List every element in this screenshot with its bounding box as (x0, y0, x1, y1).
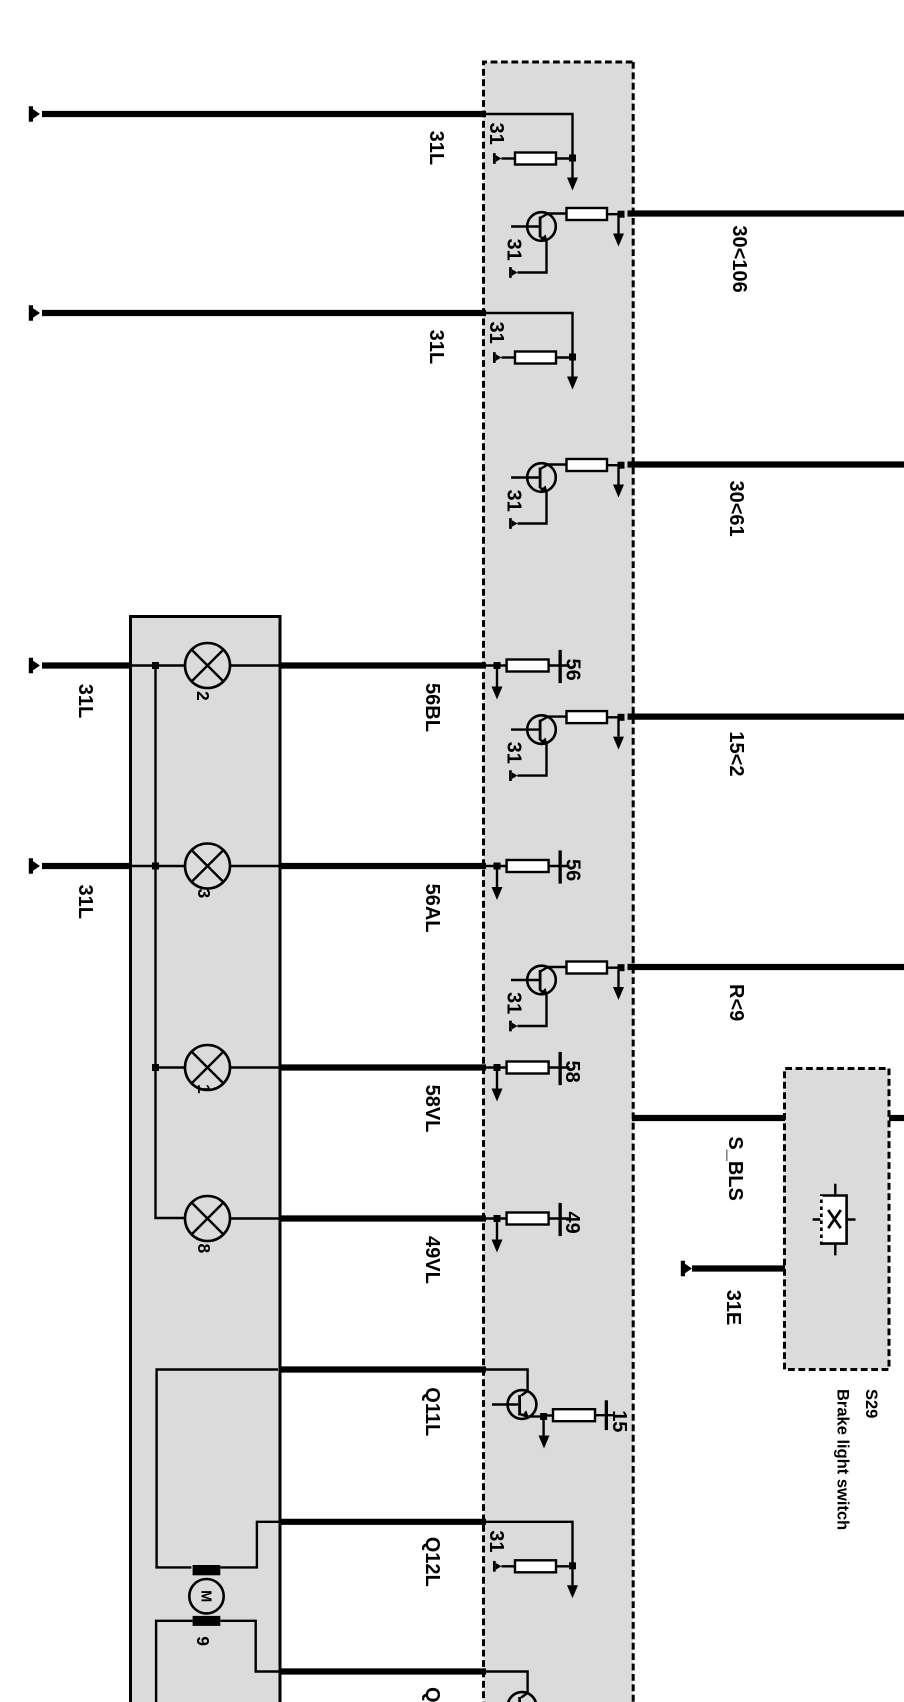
terminal 49 block row11 (486, 1203, 570, 1253)
lamp 3 (185, 844, 230, 889)
svg-text:56: 56 (562, 859, 584, 881)
svg-text:56BL: 56BL (421, 683, 443, 732)
svg-text:Q12L: Q12L (421, 1537, 443, 1587)
lamp 8 feed wire (230, 1217, 280, 1219)
terminal 58 block row9 (486, 1052, 570, 1102)
svg-text:58: 58 (561, 1061, 583, 1083)
transistor output block row6 (503, 711, 625, 781)
washer motor feed wire Q11L (157, 1370, 278, 1568)
connector arrow 31E (681, 1261, 692, 1277)
wire 30&lt;106 row2 (628, 210, 904, 216)
connector arrow row5 (29, 658, 40, 674)
transistor Q block row14 (483, 1672, 630, 1702)
wire 56BL row5 upper segment (279, 662, 487, 668)
wire 31L row1 (42, 111, 486, 117)
transistor output block row2 (503, 208, 625, 278)
wire Q11L row12 (279, 1366, 487, 1372)
wire Q12L row13 (279, 1519, 487, 1525)
connector arrow row7 (29, 858, 40, 874)
wire 49VL row11 (279, 1215, 487, 1221)
wire 31L row5 lower segment (42, 662, 132, 668)
motor bus tail wire (156, 1621, 193, 1702)
terminal 31 block row1 (485, 114, 578, 191)
terminal 31 block row13 (485, 1522, 578, 1599)
control module box (dashed gray band) (484, 62, 634, 1702)
svg-text:2: 2 (193, 691, 213, 701)
wire 56AL row7 upper segment (279, 863, 487, 869)
motor brush 2 (193, 1616, 221, 1626)
washer motor M (189, 1579, 223, 1613)
wire 30&lt;61 row4 (628, 461, 904, 467)
brake light switch S29 box (785, 1069, 890, 1370)
svg-text:30<106: 30<106 (728, 225, 750, 292)
terminal 31 block row3 (485, 313, 578, 390)
lamp cluster box (131, 617, 281, 1702)
wire 31E (692, 1265, 785, 1271)
svg-text:49: 49 (561, 1212, 583, 1234)
svg-text:9: 9 (193, 1636, 213, 1646)
lamp 2 (185, 643, 230, 688)
wire S_BLS row10 lower (632, 1115, 785, 1121)
svg-text:S29: S29 (862, 1389, 880, 1418)
svg-text:1: 1 (194, 1084, 214, 1094)
connector arrow row3 (29, 305, 40, 321)
svg-text:S_BLS: S_BLS (724, 1136, 746, 1200)
transistor output block row8 (503, 962, 625, 1032)
svg-text:Brake light switch: Brake light switch (834, 1389, 852, 1530)
lamp bus wire (156, 666, 185, 1219)
svg-text:31L: 31L (425, 330, 447, 364)
brake light switch symbol (813, 1184, 856, 1256)
svg-text:31L: 31L (74, 885, 96, 919)
lamp 8 (185, 1196, 230, 1241)
svg-text:30<61: 30<61 (725, 481, 747, 537)
svg-text:49VL: 49VL (421, 1236, 443, 1284)
transistor Q block row12 (483, 1370, 630, 1449)
terminal 56 block row5 (486, 650, 570, 700)
wire 31L row3 (42, 310, 486, 316)
svg-text:R<9: R<9 (725, 984, 747, 1021)
wire Q12L to brush 1 (220, 1522, 280, 1568)
bus junction dots (152, 662, 159, 669)
lamp 3 feed wires (131, 865, 281, 867)
motor brush 1 (193, 1565, 221, 1575)
wire 58VL row9 (279, 1064, 487, 1070)
transistor output block row4 (503, 459, 625, 529)
svg-text:Q11L: Q11L (421, 1387, 443, 1436)
wire 15&lt;2 row6 (628, 713, 904, 719)
lamp 1 (185, 1045, 230, 1090)
terminal 56 block row7 (486, 850, 570, 900)
svg-text:31L: 31L (74, 684, 96, 718)
connector arrow row1 (29, 106, 40, 122)
wire Q10L row14 (279, 1668, 487, 1674)
svg-text:15<2: 15<2 (725, 731, 747, 776)
svg-text:31L: 31L (425, 131, 447, 165)
svg-text:56AL: 56AL (421, 884, 443, 933)
svg-text:3: 3 (194, 889, 214, 899)
wire Q10L to brush 2 (220, 1621, 280, 1672)
wire R&lt;9 row8 (628, 964, 904, 970)
lamp 1 feed wires (156, 1066, 281, 1068)
lamp 2 feed wires (131, 664, 281, 666)
svg-text:M: M (198, 1590, 214, 1602)
svg-text:31E: 31E (722, 1290, 744, 1326)
wire 31L row7 lower segment (42, 863, 132, 869)
svg-text:Q10L: Q10L (421, 1687, 443, 1702)
svg-text:8: 8 (194, 1244, 214, 1254)
wire S_BLS row10 upper (889, 1115, 904, 1121)
svg-text:56: 56 (562, 659, 584, 681)
svg-text:58VL: 58VL (421, 1085, 443, 1133)
